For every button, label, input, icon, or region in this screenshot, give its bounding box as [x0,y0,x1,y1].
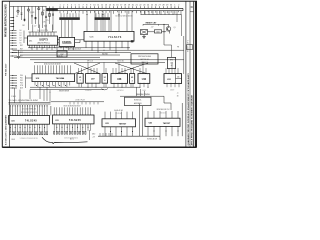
svg-text:+5: +5 [177,93,179,95]
svg-text:2 3 4 5 6 7 8 9 1 2 3: 2 3 4 5 6 7 8 9 1 2 3 [22,109,36,111]
svg-text:02CP73: 02CP73 [39,38,48,41]
address bus label box (reverse video) [95,17,111,20]
U31 bottom pads [54,131,55,134]
svg-text:RDY: RDY [20,49,23,51]
svg-text:74LS245: 74LS245 [69,119,81,122]
wire vertical bottom-left links [29,90,31,99]
wire RP1 up [171,45,173,57]
svg-text:1B: 1B [177,96,179,98]
wire vertical left pullup rail [13,6,15,30]
bus wire A [28,47,130,49]
svg-text:8-0 049-5137 C 1983 QUADRAM: 8-0 049-5137 C 1983 QUADRAM [5,115,8,145]
U31 bottom pin dots [56,127,57,128]
svg-text:1 3 5 9: 1 3 5 9 [170,90,174,92]
U23 top pins [105,112,133,119]
U43 top pins [148,111,178,118]
left connector input pins lower [10,75,17,77]
wire vertical reset net [163,24,165,45]
border frame bottom thick edge [2,146,196,148]
svg-text:+5V: +5V [151,27,154,29]
left margin inner border [9,1,11,147]
power stub labels bottom middle [89,130,91,140]
svg-text:3 6 10 13: 3 6 10 13 [160,113,166,115]
svg-text:D0: D0 [20,30,22,32]
connector J1 pin ticks [60,6,179,8]
vertical connector between U21 and U31 [50,106,52,116]
svg-text:APX-B PRN/CTR BOARD SCHEMATIC: APX-B PRN/CTR BOARD SCHEMATIC DIAGRAM [191,95,194,145]
grouping brace bottom connector [42,137,88,143]
wires U11 to U12 [58,39,60,41]
wire right edge drop [176,15,178,22]
IC U42 box [138,74,150,84]
right band mid line [189,1,191,147]
bus junction dots [31,47,32,48]
diode CR1 with connector circle [17,6,19,15]
wire drops into address bus label [96,13,108,17]
svg-text:U1: U1 [104,77,106,79]
ground symbol mid-left [18,50,20,56]
svg-text:10K: 10K [15,86,18,88]
bus wire G below middle ICs [30,86,140,88]
svg-text:U43: U43 [149,122,152,125]
svg-text:U11: U11 [29,41,32,43]
resistor R5 [42,6,44,28]
wires CASPAL to U26 [75,39,84,41]
crossing wires X2 [115,63,148,74]
svg-text:D4: D4 [20,40,22,42]
svg-text:1 2 3 4 5 6 7 8 9 10 11 12 13: 1 2 3 4 5 6 7 8 9 10 11 12 13 [20,138,38,140]
svg-text:STB: STB [20,85,23,87]
svg-text:PRINTER INTERFACE BOARD: PRINTER INTERFACE BOARD [5,4,8,37]
IC U11 02CP73 microprocessor box [28,36,58,45]
connector J1 lower pin stubs [60,11,179,14]
right edge vertical wires [181,103,183,136]
bottom bus collector line [98,135,160,137]
U26 bottom pins [86,41,128,52]
IC U31 74LS245 box [53,115,94,124]
IC U31 74LS14 box [164,74,182,84]
resistor R3 marks [31,6,33,24]
row col address note box [125,97,152,105]
U21 bottom pins [10,124,47,131]
svg-text:B0 B1 B2: B0 B1 B2 [117,60,124,62]
wire pair between U23 and U43 to bus [139,104,141,137]
svg-text:U5: U5 [79,77,81,79]
svg-text:74LS244: 74LS244 [56,77,65,80]
svg-text:3: 3 [132,80,133,82]
svg-text:SHEET 1 OF 2: SHEET 1 OF 2 [188,40,190,52]
svg-text:6: 6 [104,80,105,82]
svg-text:R5: R5 [43,10,45,12]
svg-text:KKI: KKI [157,31,160,33]
svg-text:D3: D3 [20,38,22,40]
resistor network column 1 [21,6,23,20]
bus wire E [14,56,100,58]
U31 bottom pins [54,124,90,131]
left mid connector arrows [10,45,17,47]
svg-text:B0 B1 B2 B3 B4 B5 B6 B7: B0 B1 B2 B3 B4 B5 B6 B7 [64,106,81,108]
bus wire F [30,59,184,61]
capacitor C5 [45,6,47,30]
svg-text:U5: U5 [131,77,133,79]
svg-text:9 8 7 6 5 4: 9 8 7 6 5 4 [117,90,124,92]
CASPAL bottom pins [61,47,74,51]
svg-text:U42: U42 [142,78,147,81]
IC U12 CASPAL box [59,37,74,46]
svg-text:10K: 10K [16,16,19,18]
svg-text:U21: U21 [11,120,14,122]
oscillator small box [57,51,67,57]
svg-text:D1: D1 [20,33,22,35]
wire rail drops from components [32,25,34,33]
U21 bottom pads [10,132,11,135]
svg-text:C5: C5 [47,20,49,22]
IC U57 box [77,74,83,84]
svg-text:18 17 16 15 14 13 12 11: 18 17 16 15 14 13 12 11 [21,112,37,114]
svg-text:RDY: RDY [20,52,23,54]
svg-text:RAS/CAS TIMING: RAS/CAS TIMING [136,93,150,96]
right drawing border [185,1,187,147]
svg-text:PD0: PD0 [20,75,23,77]
bus wire D [20,54,120,56]
svg-text:7-4-1: 7-4-1 [11,96,15,98]
svg-text:D2: D2 [20,35,22,37]
resistor network column 2 [24,6,26,21]
IC U43 74F257 box [145,118,180,126]
transistor Q1 [166,27,171,32]
U18 bottom pins [35,82,70,88]
svg-text:RDY: RDY [20,56,23,58]
U26 corner junction blob [131,40,134,42]
IC U27 box [86,74,100,84]
svg-text:2I4: 2I4 [177,77,179,79]
svg-text:TR: O-A-P× 0123456789AB YK² BU: TR: O-A-P× 0123456789AB YK² BUNO [9,99,39,102]
wire left inputs to U11 [23,31,25,44]
wire reset to transistor [159,23,169,25]
svg-text:D0 D1 D2 D3 D4 D5 D6: D0 D1 D2 D3 D4 D5 D6 [116,15,133,17]
brace under U16 pins [102,89,109,90]
transistor Q4 circle [38,6,40,28]
IC U18 74LS244 box [32,74,75,82]
resistor R6 [49,6,51,24]
svg-text:U23: U23 [105,123,108,125]
svg-text:D5: D5 [20,43,22,45]
svg-text:Q1: Q1 [173,27,175,29]
bus wire B [13,49,184,51]
U43 bottom pin dots [154,131,155,132]
svg-text:+5V: +5V [92,137,95,139]
transistor Q3 circle [28,6,30,30]
resistor RP label box KKI [154,30,161,33]
IC U48 box [111,74,128,84]
connector J1 bus band [47,7,184,9]
top right collector wire [141,14,182,16]
svg-text:4.7K: 4.7K [43,22,46,24]
wires from U42 down to ras cas [136,87,138,96]
svg-text:CR2: CR2 [22,25,25,27]
svg-text:L M N O P Q R: L M N O P Q R [75,100,85,102]
U21 top pins with pads [10,106,47,116]
svg-text:Q3: Q3 [30,12,32,14]
IC U26 74LS174 box [84,31,134,41]
double bus line bottom-left [9,102,51,104]
right band zone tick [190,11,194,13]
svg-text:2 5 11 14: 2 5 11 14 [116,113,122,115]
crossing wires X1 [74,63,100,74]
note box signal table [131,54,158,64]
U43 bottom pins [148,126,178,136]
capacitor C4 blob [35,6,37,24]
wire ras cas step [163,96,165,103]
svg-text:RDY: RDY [20,45,23,47]
bottom bus stubs up [100,133,112,136]
bottom pin dots mid [88,87,89,88]
svg-text:P/N 049-5137: P/N 049-5137 [5,63,8,76]
svg-text:R3: R3 [32,12,34,14]
resistor pack RP1 box [167,57,175,68]
bus drop lines below address label [96,20,98,32]
U11 top pin rail [29,31,58,33]
svg-text:U48: U48 [117,78,122,81]
bus wire C [13,52,132,54]
U23 bottom pin dots [110,131,111,132]
border frame right inner line [193,1,195,147]
data bus label box (reverse video) [59,17,80,20]
ground below crystal [143,35,145,37]
bus drop lines below data label [61,20,63,38]
svg-text:CASPAL: CASPAL [62,41,72,44]
IC U16 box [102,74,108,84]
U26 top pins [87,11,132,32]
svg-text:74LS245: 74LS245 [25,120,37,123]
svg-text:U31: U31 [55,120,58,122]
svg-text:74F257: 74F257 [163,122,171,125]
svg-text:1 2 3 4 5 6 7 8 9 10 11: 1 2 3 4 5 6 7 8 9 10 11 [64,138,78,140]
svg-text:U18: U18 [36,78,39,80]
IC U23 74F257 box [102,119,136,127]
U18 bottom pin dots [36,85,37,86]
bus rail above middle ICs [34,61,165,63]
svg-text:2 4 6 8 10 12 14: 2 4 6 8 10 12 14 [37,30,48,32]
svg-text:QUADRAM PRINTER INTERFACE ENHA: QUADRAM PRINTER INTERFACE ENHANCEMENT CK… [187,72,190,145]
middle IC bottom pins [79,83,179,87]
left connector input pins upper [10,30,16,32]
wires lower connector to U18 [25,76,27,89]
U31 top pins [54,107,90,115]
svg-text:10K: 10K [170,62,173,64]
svg-text:↔ MEMW MEMR: ↔ MEMW MEMR [57,91,70,93]
ras cas underline wire [120,95,164,97]
wire right band connection [159,136,161,140]
bus line above U31 pins [51,101,104,103]
svg-text:74F257: 74F257 [119,122,127,125]
top wire horizontal left [10,5,47,7]
bus wire H below middle ICs [30,89,104,91]
svg-text:2 4 6: 2 4 6 [142,90,145,92]
svg-text:74LS174: 74LS174 [108,36,122,39]
U18 top pins [35,65,71,74]
connector J1 label box [47,8,58,11]
crystal Y1 [141,30,148,35]
IC U21 74LS245 box [9,116,50,125]
svg-text:+5V: +5V [34,26,37,28]
svg-text:PD2: PD2 [20,80,23,82]
svg-text:7: 7 [80,80,81,82]
wires crystal to KKI to Q1 [148,31,155,33]
svg-text:PD1: PD1 [20,78,23,80]
svg-text:PD3: PD3 [20,83,23,85]
wire drops into data bus label [61,13,79,17]
border frame right outer thick edge [195,1,197,147]
input arrows onto rail [10,17,14,19]
U26 pin junction dots [86,14,87,15]
U11 bottom pins [30,45,58,50]
svg-text:(MICROPROC): (MICROPROC) [37,42,50,44]
right band sheet box [187,45,193,50]
svg-text:PIN 7404 74LS04: PIN 7404 74LS04 [138,56,151,58]
IC U53 box [130,74,135,84]
middle IC top pin stubs [79,62,179,74]
capacitor C6 [52,6,54,30]
U21 bottom pin dots [10,127,11,128]
svg-text:1 2 3 4 5 6: 1 2 3 4 5 6 [85,90,92,92]
U23 bottom pins [105,127,133,136]
border frame outer [2,1,196,147]
svg-text:ROW/COL: ROW/COL [134,100,142,102]
svg-text:MR CLK: MR CLK [87,60,93,62]
